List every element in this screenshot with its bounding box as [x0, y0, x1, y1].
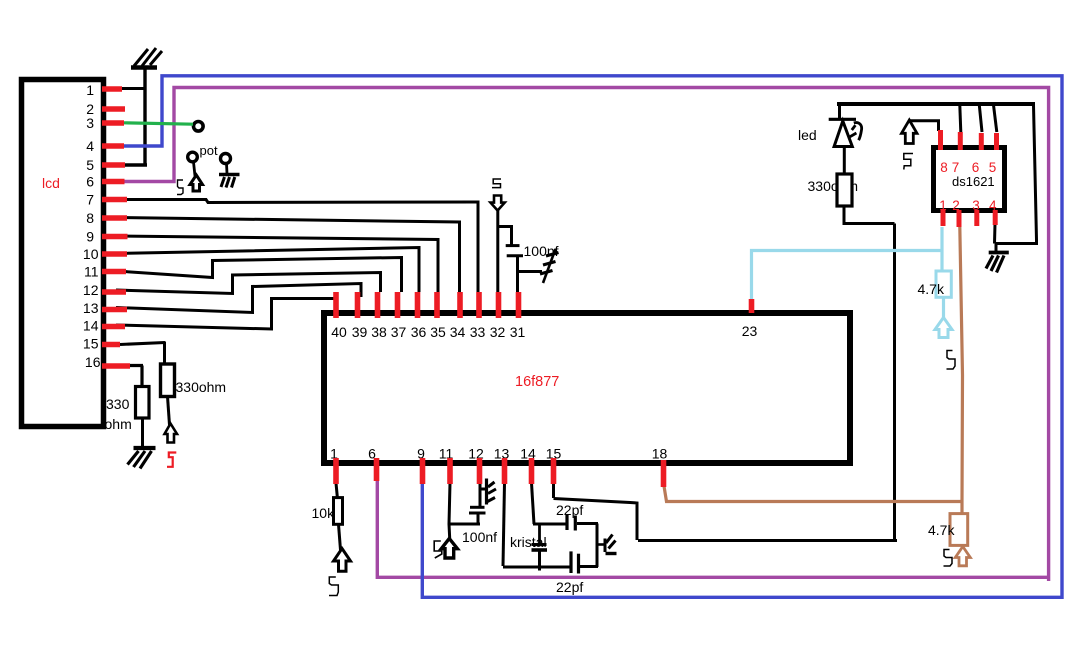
down arrow at PIC pin32 [491, 196, 505, 211]
svg-text:34: 34 [450, 324, 466, 340]
capacitor 100nf (top) plates [506, 244, 520, 247]
ds1621 top pin ticks [941, 130, 997, 150]
wire arrow to pin8 [910, 121, 939, 131]
wire led to resistor [843, 147, 846, 177]
PIC pin14 wire down [532, 483, 535, 524]
LCD module body [22, 80, 104, 427]
wire resistor to arrow [168, 397, 170, 426]
svg-text:8: 8 [940, 160, 948, 175]
cyan net: PIC pin23 - ds1621 pin1 - 4.7k [752, 227, 943, 301]
wire bus to ds1621 pin7 [960, 105, 961, 132]
svg-text:4.7k: 4.7k [918, 281, 945, 297]
power arrow under right 330ohm [165, 424, 178, 443]
svg-text:15: 15 [83, 336, 99, 352]
LCD pin numbers 1-16 [83, 82, 101, 370]
squiggle 5 at pot [177, 180, 183, 195]
wire LCD pin9 to PIC pin35 [116, 236, 438, 292]
svg-text:kristal: kristal [510, 534, 547, 550]
capacitor 100nf plates [470, 506, 485, 509]
resistor 330ohm (left, LCD pin16) [136, 387, 150, 419]
ground symbol at pot [219, 175, 240, 188]
svg-text:100nf: 100nf [524, 243, 559, 259]
wire resistor to ground [141, 418, 144, 447]
wire LCD pin7 to PIC pin33 [116, 200, 478, 293]
wire ground vertical stem [143, 69, 146, 166]
power arrow at pin11 [441, 539, 457, 559]
svg-text:23: 23 [742, 323, 758, 339]
svg-text:16: 16 [85, 354, 101, 370]
PIC pin12 wire down [479, 483, 482, 507]
wire 22pf bottom right [580, 565, 598, 568]
ds1621 bottom pin ticks [943, 210, 995, 227]
svg-text:4.7k: 4.7k [928, 522, 955, 538]
ground hatch at pin12 [480, 479, 496, 505]
resistor 330ohm at led [837, 174, 852, 206]
svg-text:9: 9 [86, 229, 94, 245]
ground symbol below left 330ohm [128, 448, 156, 469]
svg-text:39: 39 [352, 324, 368, 340]
wire 100nf bottom plate down [477, 513, 480, 526]
svg-text:11: 11 [84, 264, 99, 280]
svg-text:ds1621: ds1621 [952, 174, 995, 189]
wire LCD pin11 to PIC pin37 [116, 258, 402, 293]
PIC bottom pin ticks [336, 458, 664, 487]
wire LCD pin13 to PIC pin39 [116, 284, 361, 313]
wire bus to ds1621 pin5 [994, 105, 997, 132]
wire LCD pin12 to PIC pin38 [116, 273, 381, 294]
crystal stem bottom [538, 551, 541, 571]
svg-text:14: 14 [83, 318, 99, 334]
crystal stem top [538, 524, 541, 545]
wire LCD pin10 to PIC pin36 [116, 248, 419, 293]
wire 22pf top right [577, 522, 598, 525]
brown wire from PIC pin18 [664, 483, 963, 502]
svg-text:36: 36 [411, 324, 427, 340]
svg-text:pot: pot [200, 143, 218, 158]
wire LCD pin15 to resistor [120, 342, 165, 366]
wire led branch from top bus [838, 103, 841, 119]
svg-text:6: 6 [972, 160, 980, 175]
svg-text:330ohm: 330ohm [176, 379, 227, 395]
power arrow under pot [190, 175, 203, 191]
brown net: ds1621 pin2 down, pin18 across [960, 226, 963, 514]
svg-text:10k: 10k [312, 505, 336, 521]
led scribble arrows [849, 123, 862, 141]
capacitor 22pf bottom plates [569, 551, 572, 573]
svg-text:led: led [798, 127, 817, 143]
svg-text:18: 18 [652, 446, 668, 462]
svg-text:16f877: 16f877 [515, 374, 559, 390]
squiggle 5 under cyan arrow [947, 351, 956, 370]
green net: LCD pin3 to pot wiper [124, 123, 193, 124]
resistor 10k [334, 498, 343, 525]
wire LCD pin1 to ground stem [118, 87, 146, 90]
wire right vertical joining 22pf caps [596, 524, 599, 568]
svg-text:5: 5 [86, 157, 94, 173]
wire pin15 to right [554, 499, 898, 541]
wire bus right end down to pin4 elbow [995, 105, 1037, 244]
resistor 330ohm (right, LCD pin15) [161, 364, 175, 397]
svg-text:1: 1 [86, 82, 94, 98]
led crossbar [829, 118, 856, 121]
ground hatch right of 100nf [540, 249, 559, 283]
wire resistor down and right [844, 206, 895, 224]
wire LCD pin14 to PIC pin40 [116, 299, 335, 330]
PIC 16f877 body [324, 313, 850, 463]
svg-text:40: 40 [331, 324, 347, 340]
ds1621 bottom pin numbers [939, 198, 997, 213]
wire pin32 up to arrow [496, 210, 499, 292]
svg-text:lcd: lcd [42, 175, 60, 191]
svg-text:22pf: 22pf [556, 502, 583, 518]
svg-text:37: 37 [391, 324, 407, 340]
svg-text:12: 12 [83, 282, 99, 298]
power arrow cyan [935, 318, 952, 338]
pot left terminal circle [188, 152, 198, 162]
squiggle 5 under 10k arrow [329, 577, 338, 596]
svg-text:22pf: 22pf [556, 579, 583, 595]
svg-text:38: 38 [371, 324, 387, 340]
wire LCD pin16 to resistor [125, 366, 143, 389]
resistor 4.7k brown [950, 514, 968, 546]
crystal scribble mark [598, 535, 617, 554]
LCD pin ticks [102, 89, 130, 366]
wire pin11 branch to 100nf [449, 523, 480, 526]
squiggle 5 at pin11 arrow [434, 541, 442, 558]
svg-text:7: 7 [952, 160, 960, 175]
svg-text:13: 13 [83, 300, 99, 316]
wire bottom rail to 22pf cap [503, 566, 570, 569]
squiggle 5 under pin8 arrow [904, 154, 913, 170]
PIC pin15 wire down [552, 483, 555, 498]
PIC pin1 wire to 10k [336, 483, 338, 499]
purple net: LCD pin6 - top - right side - PIC pin6 [124, 88, 1049, 582]
svg-text:3: 3 [86, 115, 94, 131]
PIC bottom pin numbers [330, 446, 667, 462]
wire 10k to arrow [339, 524, 341, 550]
ground symbol below ds1621 [986, 253, 1009, 273]
pot right terminal circle [221, 154, 231, 164]
led triangle [834, 121, 852, 147]
svg-text:35: 35 [430, 324, 446, 340]
svg-text:5: 5 [989, 160, 997, 175]
wire bus to ds1621 pin6 [979, 105, 982, 132]
wire cyan resistor to arrow [942, 297, 945, 319]
svg-text:31: 31 [510, 324, 526, 340]
ds1621 body [934, 148, 1005, 211]
squiggle 5 above pin32 arrow [492, 179, 501, 188]
power arrow at ds1621 pin8 [902, 120, 918, 144]
wire pot left terminal down [194, 162, 196, 176]
ground symbol above LCD [131, 48, 162, 68]
svg-text:10: 10 [83, 246, 99, 262]
wire LCD pin5 to ground stem [125, 163, 147, 166]
PIC pin13 wire down [503, 483, 505, 566]
PIC top pin numbers [331, 323, 757, 340]
wire ds1621 pin4 down [995, 224, 997, 252]
svg-text:100nf: 100nf [462, 529, 497, 545]
svg-text:6: 6 [86, 174, 94, 190]
resistor 4.7k cyan [936, 271, 951, 297]
wire long vertical to pin15 rail [893, 224, 896, 540]
pot wiper circle [194, 122, 204, 132]
blue net: LCD pin4 - top - right side - PIC pin9 [124, 76, 1062, 598]
svg-text:7: 7 [86, 192, 94, 208]
ds1621 top pin numbers [940, 160, 996, 175]
svg-text:8: 8 [86, 210, 94, 226]
PIC top pin ticks [336, 292, 752, 318]
wire LCD pin8 to PIC pin34 [116, 218, 460, 293]
capacitor 22pf top plates [565, 515, 568, 530]
svg-text:330: 330 [106, 396, 130, 412]
power arrow under 10k [334, 549, 351, 572]
wire branch to 100nf cap (top right) [498, 227, 512, 247]
wire cap to pin31 [516, 257, 519, 293]
red 5 symbol [167, 453, 176, 467]
power arrow brown [955, 547, 970, 566]
crystal plates [532, 543, 547, 546]
wire pin14 to 22pf cap [533, 523, 566, 526]
squiggle 5 at brown arrow [944, 550, 953, 567]
wire branch to ground hatch [518, 270, 543, 273]
PIC pin11 wire down [449, 483, 450, 539]
top bus wire at ds1621 [837, 102, 1035, 106]
wire pot right terminal down [225, 164, 228, 174]
svg-text:4: 4 [86, 138, 94, 154]
svg-text:32: 32 [490, 324, 506, 340]
svg-text:33: 33 [470, 324, 486, 340]
svg-text:ohm: ohm [105, 416, 132, 432]
